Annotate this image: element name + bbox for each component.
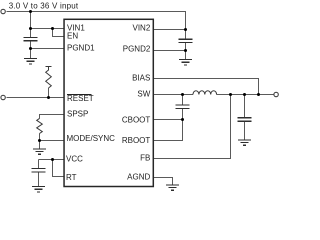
- wire top input rail: [7, 12, 186, 30]
- wire to VIN1: [31, 28, 65, 30]
- wire VIN2: [154, 29, 186, 31]
- wire input cap to ground: [30, 41, 32, 59]
- svg-text:RT: RT: [66, 173, 77, 182]
- svg-text:CBOOT: CBOOT: [122, 116, 151, 125]
- terminal input: [1, 9, 5, 13]
- node MODE junction: [38, 139, 41, 142]
- wire VCC cap branch: [38, 160, 40, 169]
- IC U1 buck regulator box: [64, 19, 153, 186]
- ground VCC cap: [32, 187, 45, 192]
- svg-text:SPSP: SPSP: [67, 110, 88, 119]
- wire VCC cap to ground: [38, 173, 40, 187]
- inductor L1: [193, 91, 217, 95]
- svg-text:VIN2: VIN2: [133, 23, 151, 32]
- capacitor C5 output plates: [238, 117, 252, 119]
- svg-text:AGND: AGND: [127, 173, 150, 182]
- wire PGND2: [154, 50, 186, 52]
- node CBOOT junction: [181, 118, 184, 121]
- ground input cap left: [24, 59, 37, 64]
- wire MODE node to ground: [39, 141, 41, 149]
- svg-text:PGND1: PGND1: [67, 44, 95, 53]
- capacitor C4 CBOOT plates: [176, 104, 190, 106]
- node FB junction: [229, 93, 232, 96]
- wire CBOOT: [154, 119, 183, 121]
- wire to PGND1: [31, 48, 65, 50]
- terminal output: [274, 92, 278, 96]
- wire RESET pullup: [48, 88, 50, 98]
- wire FB: [154, 95, 231, 159]
- node SW junction: [181, 93, 184, 96]
- wire VCC: [39, 159, 65, 161]
- svg-text:FB: FB: [140, 154, 150, 163]
- capacitor C1 input left plates: [24, 37, 38, 39]
- svg-text:RESET: RESET: [67, 94, 94, 103]
- capacitor C2 VCC plates: [32, 168, 46, 170]
- node VIN2 junction: [184, 28, 187, 31]
- node output cap junction: [243, 93, 246, 96]
- svg-text:PGND2: PGND2: [123, 44, 151, 53]
- wire output cap to ground: [244, 122, 246, 140]
- wire SPSP: [40, 115, 65, 119]
- node EN branch junction: [51, 27, 54, 30]
- node VIN1 junction: [29, 27, 32, 30]
- node VCC junction: [51, 158, 54, 161]
- wire output cap branch: [244, 95, 246, 118]
- wire VIN2 cap bottom to ground: [185, 43, 187, 60]
- wire SW to CBOOT cap: [182, 95, 184, 106]
- node input junction: [29, 10, 32, 13]
- wire VIN2 cap top: [185, 30, 187, 40]
- wire input cap branch: [30, 12, 32, 38]
- ground AGND: [166, 185, 179, 190]
- svg-text:MODE/SYNC: MODE/SYNC: [67, 134, 116, 143]
- svg-text:RBOOT: RBOOT: [122, 136, 151, 145]
- ground input cap right: [179, 60, 192, 65]
- wire SW to inductor: [154, 94, 194, 96]
- wire CBOOT cap to CBOOT pin: [182, 109, 184, 120]
- wire inductor to output terminal: [217, 94, 275, 96]
- wire SPSP resistor to MODE node: [39, 134, 41, 141]
- wire BIAS: [154, 79, 259, 95]
- svg-text:SW: SW: [137, 89, 150, 98]
- svg-text:EN: EN: [67, 32, 78, 41]
- wire MODE/SYNC: [40, 140, 65, 142]
- node RESET junction: [47, 96, 50, 99]
- node PGND1 junction: [29, 47, 32, 50]
- wire RESET: [7, 97, 65, 99]
- capacitor C3 input right plates: [179, 38, 193, 40]
- node PGND2 junction: [184, 49, 187, 52]
- wire VCC to RT: [53, 160, 65, 177]
- wire to EN: [53, 29, 65, 37]
- resistor R2 SPSP: [37, 118, 43, 133]
- node BIAS junction: [257, 93, 260, 96]
- svg-text:BIAS: BIAS: [132, 74, 150, 83]
- ground output cap: [238, 140, 251, 145]
- resistor R1 RESET pull-up: [46, 67, 52, 88]
- wire CBOOT to RBOOT: [154, 120, 183, 141]
- svg-text:3.0 V to 36 V input: 3.0 V to 36 V input: [9, 2, 79, 11]
- svg-text:VCC: VCC: [66, 154, 83, 163]
- wire AGND: [154, 178, 173, 185]
- terminal RESET: [1, 95, 5, 99]
- ground MODE/SYNC: [33, 149, 46, 154]
